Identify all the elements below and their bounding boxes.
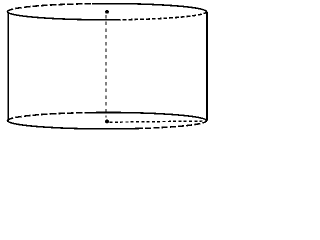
right side wall <box>206 12 208 121</box>
bottom ellipse front-right arc (dashed) <box>137 121 207 129</box>
top ellipse back-left arc (dashed) <box>7 4 92 12</box>
top ellipse front-left arc (solid) <box>7 12 117 20</box>
top ellipse back-right arc (solid) <box>92 4 207 12</box>
axis (dashed) <box>105 15 107 118</box>
bottom ellipse back-left arc (dashed) <box>7 113 90 121</box>
bottom center dot <box>105 120 109 124</box>
top ellipse front-right arc (dashed) <box>117 12 207 20</box>
cylinder diagram <box>0 0 214 136</box>
radius line (dashed) <box>110 121 206 122</box>
bottom ellipse back-right arc (solid) <box>90 112 207 120</box>
top center dot <box>105 10 109 14</box>
bottom ellipse front-left arc (solid) <box>8 121 138 129</box>
left side wall <box>7 12 9 121</box>
